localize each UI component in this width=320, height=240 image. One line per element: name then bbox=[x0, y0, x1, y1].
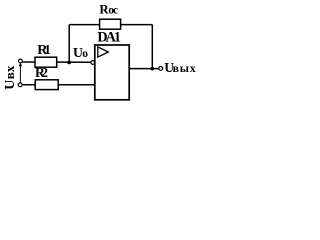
output terminal bbox=[159, 67, 163, 71]
op-amp triangle symbol bbox=[98, 47, 109, 57]
svg-text:U: U bbox=[3, 80, 18, 90]
wire: feedback left vertical bbox=[68, 25, 70, 63]
resistor R2 bbox=[35, 80, 58, 90]
op-amp DA1 box bbox=[95, 45, 129, 100]
wire: feedback right vertical bbox=[151, 25, 153, 69]
node junction dot (feedback / output) bbox=[150, 67, 154, 71]
voltage arrow Uвх (between input terminals, pointing up) bbox=[19, 65, 21, 83]
wire: feedback top horizontal bbox=[69, 24, 152, 26]
wire: non-inverting input line (terminal to op-amp) bbox=[22, 84, 95, 86]
svg-text:ос: ос bbox=[108, 5, 118, 17]
input terminal top bbox=[19, 59, 23, 63]
resistor Roc bbox=[100, 19, 121, 29]
node junction dot (feedback / inverting input) bbox=[67, 61, 71, 65]
svg-text:R1: R1 bbox=[37, 43, 51, 58]
svg-text:R2: R2 bbox=[35, 65, 48, 80]
wire: inverting input line (terminal to op-amp) bbox=[22, 61, 91, 63]
resistor R1 bbox=[35, 57, 57, 67]
inverting input inversion circle bbox=[91, 61, 95, 65]
svg-text:о: о bbox=[82, 48, 88, 60]
input terminal bottom bbox=[18, 83, 22, 87]
svg-text:вх: вх bbox=[2, 65, 17, 79]
svg-text:DA1: DA1 bbox=[97, 30, 121, 46]
wire: output bbox=[129, 68, 159, 70]
svg-text:вых: вых bbox=[173, 61, 196, 75]
